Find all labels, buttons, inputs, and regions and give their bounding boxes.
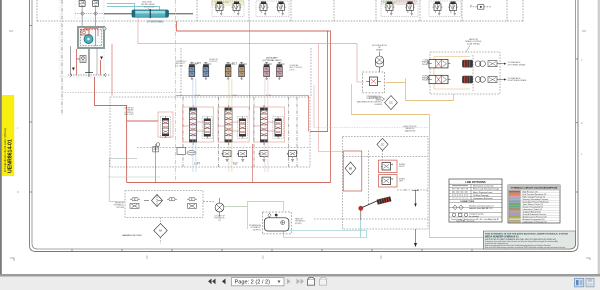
- return filter F1: [144, 195, 163, 207]
- wire to left wheel brake: [497, 63, 506, 65]
- small pilot labels: [176, 59, 303, 71]
- aux section sub-box: [254, 107, 285, 142]
- salmon steering supply wire: [138, 17, 364, 82]
- lever pilot valve V-L2: [203, 62, 211, 79]
- svg-text:(S/N 1-UP): (S/N 1-UP): [124, 114, 134, 116]
- inlet section relief valve: [158, 112, 173, 138]
- svg-text:RIGHT: RIGHT: [399, 166, 405, 168]
- steering pilot valve stems: [82, 7, 96, 28]
- svg-text:Combination Of Pressure Oil: Combination Of Pressure Oil: [523, 220, 548, 223]
- svg-text:THIS SCHEMATIC IS FOR THE 426F: THIS SCHEMATIC IS FOR THE 426F2 BACKHOE …: [485, 232, 568, 235]
- label AUXILIARY: [263, 56, 282, 62]
- swing cushion label: [357, 97, 383, 106]
- svg-text:BB: BB: [349, 168, 353, 171]
- colour tints above pilot valves: [211, 0, 244, 6]
- accumulator label: [372, 44, 387, 51]
- SCHEMATIC CONTENT: [37, 0, 576, 249]
- check valve under unit: [77, 56, 87, 63]
- svg-text:(DUAL PEDAL): (DUAL PEDAL): [467, 42, 480, 45]
- svg-text:B2 A2: B2 A2: [232, 94, 237, 97]
- red wire: inlet return drop: [155, 144, 157, 183]
- svg-text:PEDAL: PEDAL: [422, 79, 428, 82]
- wire: unit drain: [96, 48, 98, 75]
- svg-text:(to cylinder): (to cylinder): [469, 215, 479, 218]
- oil cooler: [215, 198, 224, 217]
- border ruler ticks left/right: [30, 26, 579, 193]
- svg-text:AA: AA: [159, 230, 163, 233]
- right brake pedal valve: [427, 75, 451, 83]
- tank label right: [295, 218, 306, 225]
- toolbar right: save icon: [586, 278, 594, 286]
- orange wire: bottom drain: [430, 237, 515, 239]
- svg-text:AUXILIARY: AUXILIARY: [266, 56, 278, 59]
- svg-text:STEERING: STEERING: [147, 19, 164, 23]
- pilot valve pair sub-enclosures: [212, 1, 461, 17]
- red wire: pump riser left: [76, 49, 78, 75]
- lever pilot valve V-A1: [264, 62, 272, 79]
- left brake pedal label: [422, 60, 429, 66]
- drain arrow below section: [414, 229, 417, 247]
- lever pilot valve V-L1: [189, 62, 197, 79]
- line samples: [452, 186, 468, 198]
- brake group label: [465, 38, 481, 45]
- BB return box (red): [343, 151, 362, 191]
- sheet border inner: [32, 0, 576, 249]
- swatch rows: [509, 191, 521, 223]
- swing internal dashes: [314, 151, 428, 220]
- red wire: aux return drop: [252, 144, 254, 183]
- svg-text:Component Enclosure: Component Enclosure: [473, 197, 494, 200]
- cooler label: [214, 216, 225, 222]
- canvas bottom edge: [0, 274, 600, 277]
- toolbar: prev-page button: [222, 279, 226, 285]
- section dividers: [183, 97, 297, 167]
- toolbar: page-fold icon 1: [308, 278, 316, 286]
- tilt main spool: [225, 105, 232, 145]
- svg-text:RETURN: RETURN: [117, 207, 125, 209]
- valve group enclosure: [110, 97, 310, 167]
- svg-text:Oil Flow Passage: Oil Flow Passage: [473, 195, 489, 197]
- svg-text:LINE PATTERNS: LINE PATTERNS: [465, 180, 485, 184]
- svg-text:CONNECTORS: CONNECTORS: [460, 201, 475, 203]
- svg-text:SUPPORTED BY PART NUMBERS 489-: SUPPORTED BY PART NUMBERS 489-7846, 489-…: [485, 238, 556, 241]
- svg-text:B3 A3: B3 A3: [266, 94, 271, 97]
- crop marks: [9, 31, 590, 261]
- sheet border outer: [30, 0, 579, 252]
- port arrows bottom of unit: [68, 73, 110, 77]
- orange wire: swing pilot loop: [352, 84, 430, 238]
- check valve GW3: [187, 198, 197, 201]
- unload valve symbol: [177, 148, 196, 156]
- toolbar: first-page button: [208, 279, 215, 285]
- svg-text:Pilot / Load Sensing Passage: Pilot / Load Sensing Passage: [473, 188, 500, 191]
- toolbar: next-page button (disabled): [287, 279, 291, 285]
- left brake pedal valve: [427, 60, 451, 68]
- steering relief label: [141, 2, 155, 9]
- svg-text:145-155 bar: 145-155 bar: [144, 7, 155, 9]
- right brake pedal label: [422, 75, 429, 81]
- tiny cut-off labels above band: [215, 2, 473, 7]
- HYDRAULIC TANK: [262, 212, 291, 234]
- symbol rows: [452, 205, 467, 217]
- lift main spool: [190, 105, 197, 145]
- svg-text:W Tndjk dhcsm vbo 04 wnbv r (B: W Tndjk dhcsm vbo 04 wnbv r (Brvne): [3, 128, 7, 172]
- coupling circles upper: [475, 61, 485, 82]
- svg-text:LIFT: LIFT: [196, 61, 202, 65]
- filter group enclosure: [125, 191, 203, 218]
- internal pilot lines: [84, 29, 98, 47]
- pilot solenoid valve pair P5/P6: [385, 2, 395, 16]
- aux line relief valve: [259, 151, 268, 162]
- red return trunk (bottom): [127, 182, 331, 184]
- left zone dashed boundary: [62, 92, 181, 94]
- return line to cooler (dashed): [203, 201, 214, 203]
- pilot group enclosure: [181, 48, 311, 96]
- svg-text:CONTROL: CONTROL: [209, 61, 218, 63]
- svg-text:(SUPPLY): (SUPPLY): [253, 229, 262, 231]
- orange wire: brake drain riser: [453, 94, 455, 101]
- red pilot riser to lift section: [249, 21, 251, 110]
- inlet check + gauge: [153, 143, 160, 152]
- bypass valve X2: [188, 204, 197, 209]
- lever pilot valve V-T1: [225, 62, 233, 79]
- pink return boundary: [313, 85, 315, 128]
- pilot solenoid valve pair P3/P4: [259, 2, 269, 16]
- swing section label: [403, 125, 417, 132]
- pilot solenoid valve pair P7/P8: [433, 2, 443, 16]
- svg-text:Twj 1/F 4R - nch rst w: Twj 1/F 4R - nch rst w: [456, 220, 475, 223]
- steering column shaft: [85, 48, 93, 77]
- aux compensator spool: [273, 117, 283, 139]
- svg-text:(BACKHOE): (BACKHOE): [405, 129, 416, 132]
- HMU relief cartridge: [81, 30, 89, 35]
- check valve GW2: [167, 198, 177, 201]
- swing valve 1 label: [399, 164, 406, 168]
- pressure switch box: [362, 72, 384, 93]
- control lever handle: [362, 196, 391, 207]
- svg-text:hydraulic lines (AA, BB, CC): hydraulic lines (AA, BB, CC): [469, 207, 493, 210]
- lift pilot lines (blue pair): [193, 79, 196, 173]
- filter group label: [114, 203, 125, 209]
- row texts: [460, 185, 500, 203]
- toolbar background: [0, 277, 600, 290]
- case drain wire left: [70, 46, 72, 75]
- svg-text:RIGHT WHEEL BRAKE: RIGHT WHEEL BRAKE: [508, 79, 528, 82]
- svg-text:TILT: TILT: [233, 162, 239, 166]
- svg-text:LIFT: LIFT: [195, 162, 201, 166]
- steering pilot gauge ports: [75, 12, 104, 15]
- red wire: supply riser 3: [100, 60, 102, 75]
- orange pilot wire: charge to brake: [386, 78, 454, 101]
- svg-text:LEVERS: LEVERS: [375, 104, 383, 106]
- svg-text:(FLUID): (FLUID): [295, 223, 302, 225]
- title block: [483, 231, 575, 249]
- check valve GW1: [130, 198, 140, 201]
- lever pilot valve V-A2: [277, 62, 285, 79]
- brake group enclosure: [430, 52, 500, 94]
- teal return wire from lever: [360, 220, 362, 238]
- pale trunk stub: [108, 176, 161, 178]
- cab boundary (pink dash-dot): [175, 0, 177, 181]
- tilt line relief valve pair: [222, 151, 231, 162]
- svg-text:UENR8614-01: UENR8614-01: [7, 139, 13, 173]
- svg-text:PEDAL: PEDAL: [422, 63, 428, 66]
- lever drain stub: [360, 211, 362, 221]
- svg-text:(OPTIONAL ONLY): (OPTIONAL ONLY): [263, 59, 282, 62]
- svg-text:TILT: TILT: [232, 62, 238, 66]
- margin zone labels: [147, 256, 381, 260]
- red pressure wire: pilot supply rail: [177, 21, 328, 132]
- green return wire to tank: [224, 202, 284, 230]
- svg-text:OIL LINE: OIL LINE: [176, 65, 184, 67]
- brake accumulator block right: [462, 76, 473, 84]
- lift section sub-box: [183, 107, 214, 142]
- section drain port: [413, 191, 419, 207]
- BB diamond: [345, 162, 356, 175]
- pale return wire left: [109, 158, 137, 201]
- svg-text:Mechanical Connection: Mechanical Connection: [473, 185, 494, 188]
- HYDRAULIC colour legend table: [508, 185, 560, 223]
- legend row texts: [523, 190, 549, 223]
- drain arrows under unit: [72, 57, 103, 71]
- swing valve 2 (highlighted): [378, 175, 397, 187]
- red pressure wire: valve supply rail: [328, 31, 331, 183]
- svg-text:Page: 2 (2 / 2): Page: 2 (2 / 2): [235, 280, 271, 286]
- svg-text:16: 16: [404, 190, 406, 192]
- steering cylinder lines (teal): [107, 4, 160, 11]
- orange brake internal lines: [434, 57, 470, 90]
- red rail shunt to pilot manifold: [111, 44, 113, 96]
- window right edge: [598, 0, 600, 275]
- red pilot manifold: [176, 96, 309, 132]
- toolbar right: sidebar/film icon: [575, 278, 584, 286]
- brake accumulator block left: [462, 60, 473, 68]
- label to left wheel brake: [508, 61, 527, 66]
- left zone divider (dash-dot): [61, 0, 63, 115]
- steering pilot valve right: [93, 0, 99, 6]
- steering metering unit U-STR (HMU): [78, 27, 106, 48]
- svg-text:CC: CC: [389, 101, 393, 105]
- swing valve 1 (highlighted): [378, 160, 397, 172]
- svg-text:BRAKE: BRAKE: [376, 48, 383, 51]
- accumulator ACC1: [376, 52, 384, 73]
- LINE PATTERNS legend table: [449, 179, 502, 223]
- tilt pilot lines (tan pair): [229, 79, 232, 173]
- steering pilot enclosure (teal dashed): [60, 0, 104, 77]
- CC diamond (in section): [377, 138, 388, 150]
- steering cylinder rod line: [104, 13, 193, 15]
- top pilot manifold enclosure (dashed, cut off at top): [37, 0, 523, 21]
- svg-text:CC: CC: [381, 143, 385, 146]
- steering cylinder: [132, 9, 169, 18]
- legend row lines: [508, 190, 560, 220]
- svg-text:MEDIA NUMBER UENR8614-01: MEDIA NUMBER UENR8614-01: [485, 235, 519, 238]
- port id row: [195, 94, 271, 97]
- toolbar: last-page button (disabled): [297, 279, 304, 285]
- orifice box: [470, 5, 492, 10]
- spare section relief valve: [287, 151, 296, 162]
- tilt compensator spool: [237, 117, 247, 139]
- lever pivot node: [359, 206, 363, 210]
- aux pilot lines (pink pair): [265, 79, 268, 173]
- salmon pilot branch to BB: [319, 44, 344, 152]
- section interconnect red links: [183, 122, 275, 131]
- tank label left: [249, 224, 262, 231]
- wire to right wheel brake: [497, 78, 506, 80]
- lift compensator spool: [202, 117, 212, 139]
- border ruler ticks bottom: [72, 249, 472, 252]
- swing cushion diamond CC (upper): [382, 96, 397, 110]
- pilot solenoid valve pair P1/P2: [215, 2, 225, 16]
- label VALVE GP LOADER: [124, 107, 134, 117]
- swing valve 2 label: [399, 179, 406, 183]
- tilt section sub-box: [218, 107, 249, 142]
- pressure switch label: [366, 96, 381, 100]
- brake slack adjuster upper: [488, 61, 497, 83]
- toolbar: page-fold icon 2 (disabled): [320, 278, 328, 286]
- bypass valve X1: [130, 204, 139, 209]
- swing section enclosure: [342, 137, 428, 229]
- HMU rotor: [84, 35, 93, 44]
- hammer return diamond AA: [154, 218, 168, 244]
- svg-text:LEFT WHEEL BRAKE: LEFT WHEEL BRAKE: [508, 63, 527, 66]
- svg-text:HAMMER RETURN: HAMMER RETURN: [122, 234, 142, 237]
- label to right wheel brake: [508, 77, 528, 82]
- svg-text:Main / Pressure Lines: Main / Pressure Lines: [473, 192, 492, 194]
- window left edge: [0, 0, 2, 275]
- svg-text:HYDRAULIC CIRCUIT COLOR DESCRI: HYDRAULIC CIRCUIT COLOR DESCRIPTION: [511, 187, 558, 190]
- aux main spool: [260, 105, 267, 145]
- steering pilot valve left: [79, 0, 85, 6]
- yellow sticky tab UENR8614-01: [2, 95, 14, 176]
- lever pilot valve V-T2: [239, 62, 247, 79]
- svg-text:(OPT): (OPT): [290, 69, 295, 71]
- svg-text:OIL: OIL: [218, 220, 221, 222]
- teal return loop: [284, 231, 367, 238]
- red wire: pump riser 2: [95, 77, 159, 183]
- toolbar: page combo box: [232, 278, 285, 286]
